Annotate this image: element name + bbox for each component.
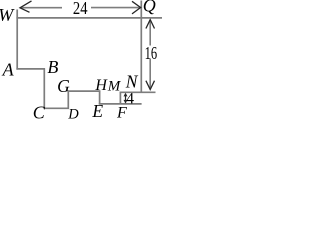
svg-text:Q: Q [143, 0, 156, 16]
arrowhead up of dimension 16 [146, 20, 155, 29]
dimension line 16 lower segment [149, 59, 151, 89]
svg-text:H: H [94, 77, 108, 94]
wire top edge W-Q with extension to right border [16, 17, 162, 19]
svg-text:N: N [125, 72, 139, 92]
arrowhead down of dimension 16 [146, 81, 155, 90]
svg-text:B: B [47, 57, 58, 77]
svg-text:E: E [91, 101, 103, 121]
svg-text:24: 24 [73, 0, 88, 18]
arrowhead left of dimension 24 [20, 1, 32, 12]
svg-text:16: 16 [145, 43, 158, 63]
dimension line 4 vertical [125, 94, 127, 103]
wire segment B-C [43, 68, 45, 109]
dimension line 16 upper segment [149, 20, 151, 46]
svg-text:D: D [67, 106, 79, 122]
wire segment M-N with extension right for dimension [120, 91, 156, 93]
wire right edge N-Q with extension up to top border [140, 1, 142, 94]
wire segment D-G [67, 90, 69, 109]
arrowhead down of dimension 4 [124, 100, 128, 104]
dimension line 24 left segment [21, 7, 62, 9]
wire segment A-B [16, 68, 45, 70]
wire segment C-D [44, 107, 70, 109]
svg-text:C: C [33, 103, 46, 122]
arrowhead up of dimension 4 [124, 93, 128, 97]
wire segment F-M [119, 92, 121, 105]
wire segment E-F with extension right to below N [99, 103, 142, 105]
svg-text:G: G [57, 76, 70, 96]
wire segment H-E [99, 90, 101, 104]
arrowhead right of dimension 24 [132, 1, 141, 14]
svg-text:A: A [2, 59, 15, 79]
wire segment G-H [68, 90, 101, 92]
svg-text:4: 4 [126, 90, 134, 107]
dimension line 24 right segment [91, 7, 140, 9]
wire left edge W-A with extension up [16, 10, 18, 70]
svg-text:M: M [107, 78, 122, 94]
svg-text:W: W [0, 5, 15, 25]
svg-text:F: F [116, 104, 127, 121]
